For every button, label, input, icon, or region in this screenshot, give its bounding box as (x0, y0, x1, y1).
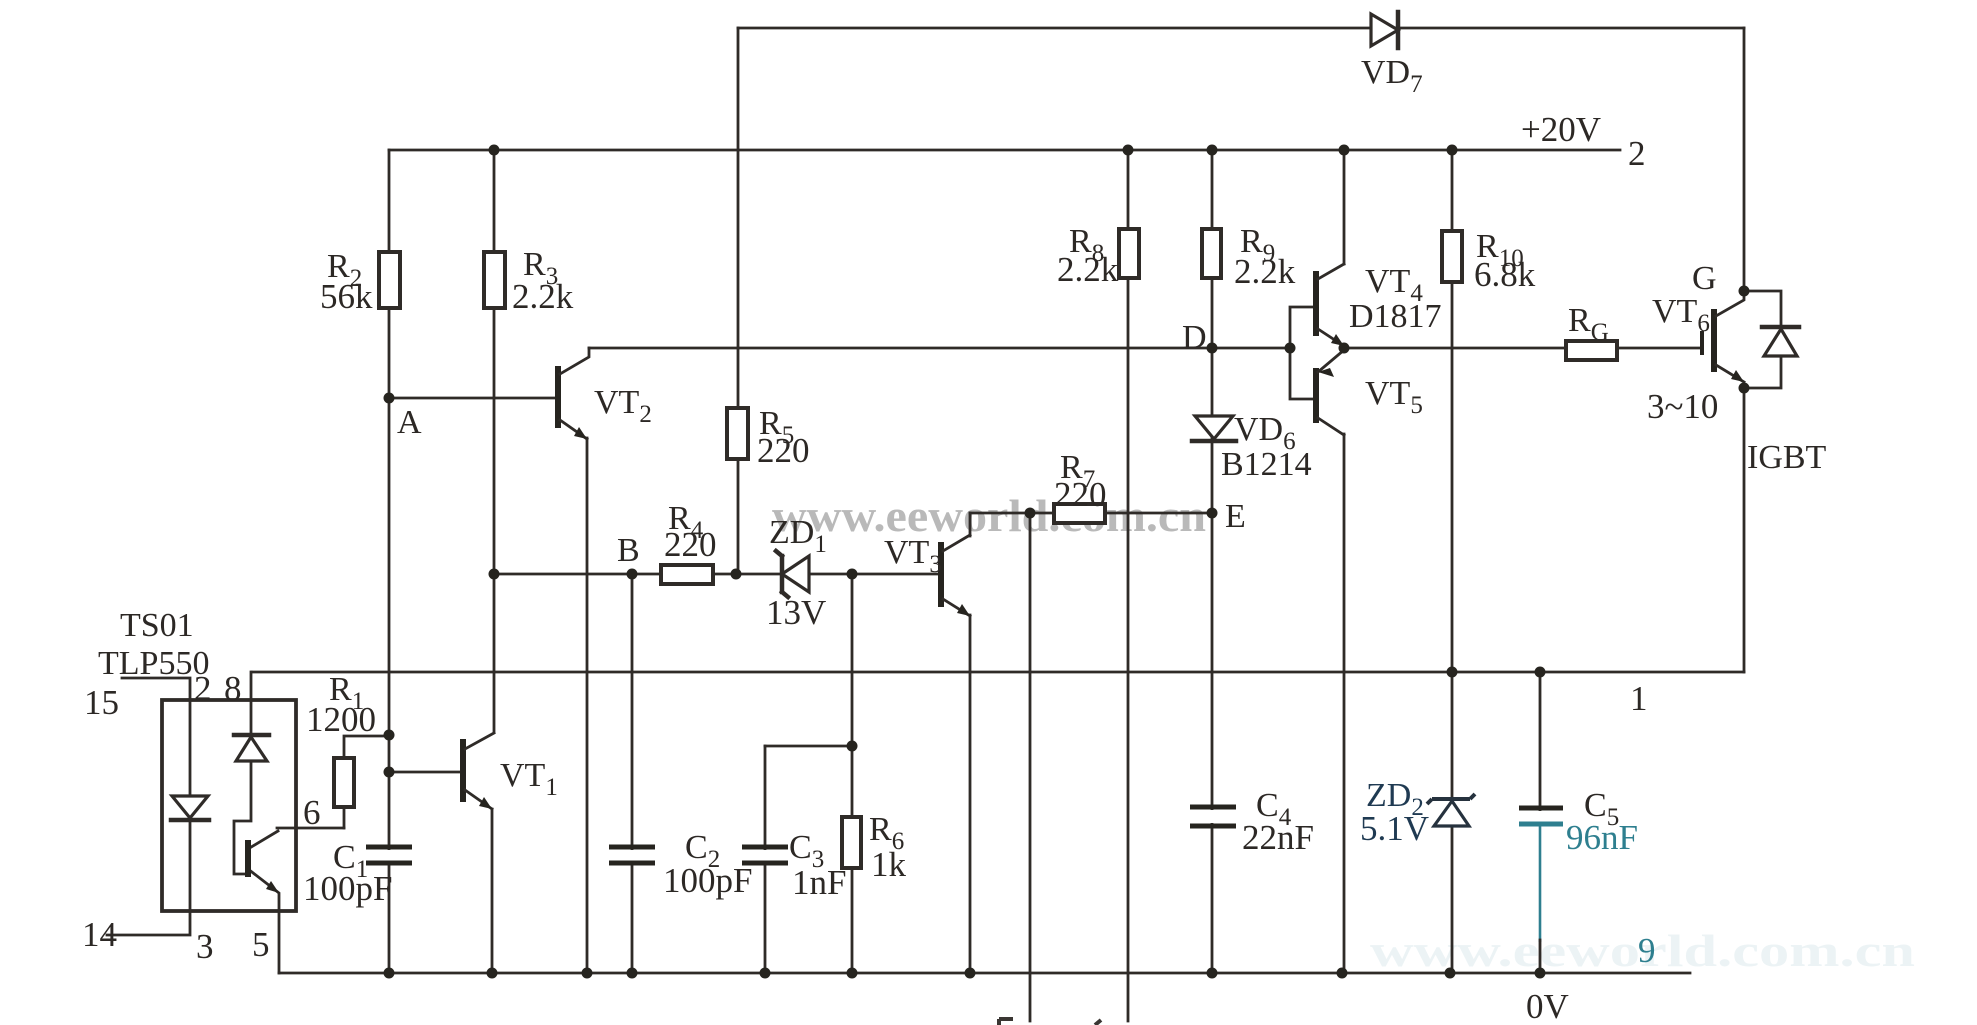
capacitor C2 (622, 850, 642, 861)
svg-text:5.1V: 5.1V (1360, 809, 1429, 848)
partial terminal 4 label at bottom edge (1095, 1020, 1101, 1025)
wire optocoupler LED column (pin 2 to pin 3) (189, 700, 192, 911)
svg-text:+20V: +20V (1521, 110, 1601, 149)
resistor R3 (484, 252, 505, 308)
svg-text:2.2k: 2.2k (512, 277, 574, 316)
wire pin 3 to terminal 14 (107, 911, 190, 935)
wire VT4 collector vertical (1343, 150, 1346, 264)
svg-text:0V: 0V (1526, 987, 1569, 1025)
capacitor C3 (755, 850, 775, 861)
wire C5 vertical lower (teal) (1539, 824, 1542, 942)
resistor R1 (334, 758, 354, 807)
capacitor C4 (1202, 810, 1222, 823)
wire VT3 emitter vertical (969, 615, 972, 973)
svg-text:VT2: VT2 (594, 384, 652, 428)
wire IGBT emitter vertical to line 1 (1743, 388, 1746, 672)
LED inside optocoupler (172, 796, 208, 818)
transistor VT4 (1313, 271, 1319, 336)
wire ZD2 vertical (1451, 672, 1454, 973)
svg-text:TLP550: TLP550 (98, 645, 209, 682)
wire node D line (VT2 collector to VT4/VT5 bases) (589, 347, 1290, 350)
wire IGBT gate node vertical (1743, 28, 1746, 291)
zener diode ZD2 (1434, 801, 1469, 826)
wire R3 / VT1 collector vertical (493, 150, 496, 732)
capacitor C5 (1531, 811, 1551, 821)
transistor VT6 (1700, 331, 1704, 355)
C3 top junction (847, 741, 858, 752)
svg-text:100pF: 100pF (303, 869, 392, 908)
svg-text:6: 6 (303, 793, 321, 832)
svg-text:D: D (1182, 319, 1207, 356)
wire R9 / VD6 / node E / C4 vertical (1211, 150, 1214, 973)
svg-text:220: 220 (664, 525, 717, 564)
wire +20V rail (389, 149, 1620, 152)
transistor VT3 (938, 542, 944, 607)
transistor VT2 (555, 366, 561, 428)
wire freewheel diode branch (1744, 291, 1781, 388)
svg-text:VT5: VT5 (1365, 375, 1423, 419)
svg-text:A: A (397, 404, 422, 441)
IGBT emitter node 3~10 (1739, 383, 1750, 394)
svg-text:B: B (617, 532, 640, 569)
wire ZD1/VT3-base junction to R6 vertical (851, 574, 854, 973)
photodiode inside optocoupler (236, 737, 267, 761)
junction dots on +20V rail (489, 145, 500, 156)
wire node B line (through R4 and ZD1 to VT3 base) (494, 573, 938, 576)
svg-text:IGBT: IGBT (1747, 439, 1827, 476)
wire VT2 emitter vertical (586, 438, 589, 973)
svg-text:56k: 56k (320, 277, 373, 316)
svg-text:9: 9 (1638, 931, 1656, 970)
svg-text:13V: 13V (766, 593, 826, 632)
svg-text:B1214: B1214 (1221, 446, 1312, 483)
0V rail junction dots (384, 968, 395, 979)
svg-text:VT1: VT1 (500, 757, 558, 801)
resistor R10 (1442, 231, 1462, 282)
svg-text:2: 2 (194, 669, 212, 708)
svg-text:D1817: D1817 (1349, 298, 1442, 335)
line 1 junction dots (1447, 667, 1458, 678)
resistor R8 (1119, 229, 1139, 278)
svg-text:1200: 1200 (306, 700, 376, 739)
svg-text:2.2k: 2.2k (1057, 250, 1119, 289)
svg-text:VD7: VD7 (1361, 54, 1423, 98)
wire R7 line (VT3 collector to node E) (970, 512, 1212, 515)
svg-text:22nF: 22nF (1242, 818, 1314, 857)
optocoupler TS01 TLP550 body (162, 700, 296, 911)
svg-text:www.eeworld.com.cn: www.eeworld.com.cn (772, 490, 1206, 541)
R1 and VT1 base junction dots (384, 730, 395, 741)
svg-text:8: 8 (224, 669, 242, 708)
svg-text:220: 220 (1054, 475, 1107, 514)
wire R2 branch vertical (A node, R1, C1 column) (388, 150, 391, 973)
zener diode ZD1 (782, 556, 809, 592)
wire phototransistor emitter to pin 5 and 0V (248, 869, 279, 973)
wire photodiode column and base jog (234, 700, 251, 874)
node G junction (1739, 286, 1750, 297)
svg-text:3~10: 3~10 (1647, 387, 1718, 426)
node B line dots (489, 569, 500, 580)
wire terminal 5 vertical (1029, 513, 1032, 1021)
resistor R6 (842, 817, 861, 868)
wire gate drive line (VT4/VT5 emitters through RG to VT6 gate) (1344, 347, 1701, 350)
svg-text:14: 14 (82, 915, 117, 954)
partial terminal 5 label at bottom edge (999, 1019, 1013, 1025)
svg-text:1: 1 (1630, 679, 1648, 718)
svg-text:2: 2 (1628, 134, 1646, 173)
svg-text:15: 15 (84, 683, 119, 722)
wire C3 vertical (764, 746, 767, 973)
wire node B to C2 vertical (631, 574, 634, 973)
wire R1 top jog to node A column (344, 736, 389, 828)
wire optocoupler pin 15 input to pin 2 (122, 678, 190, 700)
diode VD6 (1195, 416, 1233, 439)
resistor R9 (1202, 229, 1221, 278)
wire VT4/VT5 base bracket (1290, 307, 1316, 399)
freewheel diode at IGBT (1764, 329, 1797, 356)
wire VD7 / R5 branch vertical (737, 28, 740, 574)
svg-text:3: 3 (196, 927, 214, 966)
svg-text:G: G (1692, 260, 1717, 297)
transistor VT1 (389, 771, 461, 774)
svg-text:2.2k: 2.2k (1234, 252, 1296, 291)
node A (384, 393, 395, 404)
wire phototransistor collector to pin 6 and R1 bottom (248, 828, 344, 849)
svg-text:1k: 1k (871, 845, 907, 884)
node E line dots (1025, 508, 1036, 519)
phototransistor inside optocoupler (245, 840, 251, 877)
wire C5 vertical upper (1539, 672, 1542, 810)
wire VT5 collector vertical (1343, 434, 1346, 973)
resistor R4 (661, 565, 713, 584)
wire 0V rail (279, 972, 1690, 975)
wire line 1 (emitter sense rail) (253, 671, 1744, 674)
svg-text:220: 220 (757, 431, 810, 470)
diode VD7 (1371, 14, 1398, 46)
resistor R5 (727, 408, 748, 459)
svg-text:5: 5 (252, 925, 270, 964)
VT4/VT5 emitter junction (1339, 343, 1350, 354)
wire R10 vertical (1451, 150, 1454, 672)
wire C3 top connection (765, 745, 852, 748)
wire VT3 collector vertical (969, 513, 972, 536)
resistor R2 (379, 252, 400, 308)
transistor VT5 (1313, 368, 1319, 423)
wire VT2 base from node A (389, 397, 556, 400)
node D junction dots (1207, 343, 1218, 354)
svg-text:E: E (1225, 498, 1246, 535)
svg-text:TS01: TS01 (120, 607, 194, 644)
svg-text:VT6: VT6 (1652, 293, 1710, 337)
capacitor C1 (379, 850, 399, 861)
svg-text:96nF: 96nF (1566, 818, 1638, 857)
svg-text:100pF: 100pF (663, 861, 752, 900)
svg-text:6.8k: 6.8k (1474, 255, 1536, 294)
wire R8 vertical (terminal 4) (1127, 150, 1130, 1021)
resistor RG (1566, 341, 1617, 360)
wire top rail from VD7 branch to IGBT collector side (738, 27, 1744, 30)
svg-text:1nF: 1nF (792, 863, 846, 902)
resistor R7 (1054, 504, 1105, 523)
wire pin 8 stub to line 1 (250, 672, 253, 700)
